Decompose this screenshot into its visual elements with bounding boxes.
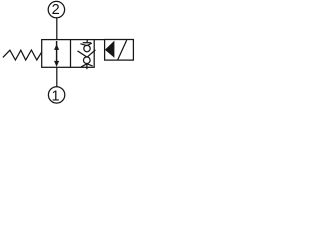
valve body outline	[42, 40, 94, 68]
svg-text:1: 1	[51, 88, 59, 104]
mid seat right arm	[87, 50, 95, 57]
actuator top connector wire	[94, 39, 104, 41]
svg-text:2: 2	[52, 2, 60, 18]
valve position divider	[70, 40, 72, 68]
mid seat left arm	[78, 51, 88, 57]
check chain stem top	[86, 40, 88, 43]
upper seat left arm	[80, 44, 87, 46]
lower seat left arm	[81, 64, 87, 67]
check ball upper	[84, 45, 90, 51]
solenoid triangle	[105, 41, 115, 58]
flow path arrowhead down	[54, 61, 59, 67]
flow path arrow shaft	[56, 41, 58, 63]
port 1 circle	[48, 87, 64, 103]
lower seat right arm	[87, 64, 93, 66]
wire from valve bottom to port 1	[56, 67, 58, 86]
flow path arrowhead up	[54, 44, 59, 50]
upper seat right arm	[87, 43, 92, 46]
check seat bar	[83, 42, 91, 44]
spring	[3, 50, 42, 60]
solenoid actuator box	[105, 40, 134, 61]
check chain stem bottom	[86, 64, 88, 69]
check ball lower	[84, 57, 91, 64]
port 2 circle	[48, 1, 64, 17]
proportional slash	[118, 40, 127, 60]
wire from port 2 to valve top	[56, 18, 58, 40]
